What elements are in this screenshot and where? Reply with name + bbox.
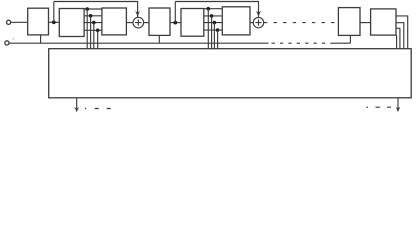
wire tap drop R3 [213, 23, 215, 49]
wire D3 to adder S1 [126, 22, 133, 24]
input terminal 1 [7, 20, 11, 24]
wire D7 to D8 [360, 22, 371, 24]
wire tap level2 right [204, 15, 223, 17]
node tap dot L2 [89, 14, 93, 18]
wire tap level4 left [84, 29, 102, 31]
adder S2 plus sign [255, 20, 261, 26]
wire tap drop R2 [211, 16, 213, 49]
wire tap drop L4 [97, 30, 99, 48]
node tap dot L1 [85, 7, 89, 11]
wire riser J2 up [174, 2, 176, 23]
wire tap drop F4 [396, 35, 398, 49]
wire dashes output right [366, 106, 391, 108]
adder S2 [253, 17, 263, 27]
wire input1 to box D1 [11, 21, 28, 23]
wire output arrow left [76, 98, 78, 111]
wire tap level1 left [84, 8, 102, 10]
box D6 [222, 7, 250, 35]
wire tap drop L2 [90, 16, 92, 49]
adder S1 [133, 17, 144, 28]
wire stem D1 to bus [40, 35, 42, 43]
box main processor [49, 49, 412, 98]
arrowhead output right [396, 107, 401, 112]
wire adder S1 to D4 [144, 22, 149, 24]
box D8 [371, 9, 396, 35]
box D7 [338, 8, 360, 36]
wire tap drop L3 [93, 23, 95, 49]
wire bus dashed middle [272, 42, 332, 44]
wire D1 to D2 [49, 21, 60, 23]
node tick mark near input 2 [13, 38, 14, 39]
wire tap drop R1 [207, 9, 209, 49]
arrowhead into adder S2 [256, 11, 261, 17]
wire tap step F3 [396, 28, 400, 48]
wire D6 to adder S2 [250, 22, 253, 24]
node tap dot L4 [96, 29, 100, 33]
wire top feedback 2 [175, 2, 258, 18]
box D3 [102, 8, 127, 35]
wire stem D7 to bus [349, 35, 351, 43]
wire stem D4 to bus [158, 35, 160, 43]
wire tap drop L1 [86, 9, 88, 49]
wire tap level1 right [204, 8, 223, 10]
wire top feedback 1 [54, 2, 138, 18]
wire tap level2 left [84, 15, 102, 17]
arrowhead output left [74, 107, 79, 112]
wire output arrow right [397, 98, 399, 111]
node tap dot L3 [92, 21, 96, 25]
node junction J2 [173, 21, 177, 25]
node tap dot R1 [207, 7, 211, 11]
wire tap step F2 [396, 23, 404, 49]
node tap dot R3 [213, 21, 217, 25]
input terminal 2 [5, 41, 9, 45]
wire bus solid right [332, 42, 351, 44]
box D4 [149, 8, 170, 35]
box D2 [59, 9, 84, 37]
box D1 [28, 8, 49, 35]
wire dashes output left [85, 108, 111, 110]
wire D5 to D6 [204, 22, 223, 24]
wire tap drop R4 [217, 30, 219, 49]
adder S1 plus sign [135, 19, 141, 25]
wire D4 to D5 [170, 22, 181, 24]
wire tap step F1 [396, 16, 408, 49]
arrowhead into adder S1 [135, 11, 140, 17]
wire dashed chain continuation [264, 22, 339, 24]
wire bus solid left [9, 42, 268, 44]
wire tap level4 right [204, 29, 223, 31]
node tap dot R4 [216, 28, 220, 32]
node junction J1 [52, 20, 56, 24]
box D5 [181, 9, 204, 37]
node tap dot R2 [210, 14, 214, 18]
wire riser J1 up [53, 2, 55, 23]
wire D2 to D3 [84, 22, 102, 24]
